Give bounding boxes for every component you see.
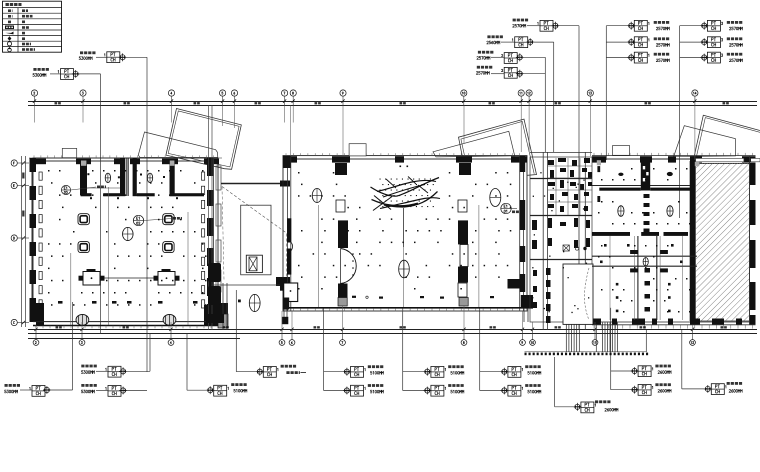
- dimension texts top: [55, 102, 729, 104]
- center oval diffuser left block: [123, 227, 134, 240]
- right block bottom wall: [592, 319, 756, 329]
- leader vertical G8: [610, 308, 612, 390]
- leader A3: [606, 54, 635, 62]
- oval diffuser right room 2: [667, 206, 673, 217]
- callout B1: [707, 20, 742, 31]
- leader A2: [606, 38, 635, 46]
- middle block cove west: [336, 200, 356, 306]
- leader vertical group A: [605, 26, 607, 160]
- canopy right thin quad: [674, 126, 736, 157]
- leader G6a: [403, 368, 431, 376]
- elevator shaft: [241, 205, 271, 275]
- right block roof stub: [613, 146, 630, 156]
- callout G3: [214, 383, 247, 396]
- leader B3: [680, 54, 709, 62]
- downlight dots middle block: [298, 172, 511, 290]
- callout G9: [581, 400, 611, 412]
- left block top wall: [29, 155, 222, 164]
- leader T1: [527, 22, 579, 152]
- leader G2b: [96, 387, 147, 395]
- callout G2b: [81, 384, 121, 396]
- callout T3: [477, 51, 517, 64]
- section marker 1: [61, 185, 106, 194]
- corridor stair blacks: [208, 263, 221, 305]
- callout U1 gypsum 5300: [79, 51, 120, 62]
- left block cove lights west: [39, 172, 42, 308]
- leader T3: [491, 53, 545, 61]
- canopy middle thin quad: [433, 131, 515, 157]
- canopy middle tilted slab: [459, 119, 537, 175]
- oval diffuser mid-left: [312, 189, 322, 203]
- left dimension line: [11, 156, 29, 327]
- corridor bottom walls: [206, 277, 290, 323]
- equipment box right: [154, 269, 180, 285]
- leader vertical G5: [323, 308, 325, 391]
- left block cove lights east: [202, 172, 205, 308]
- leader T2: [501, 38, 554, 152]
- callout T2: [487, 35, 528, 47]
- bottom dimension line: [28, 330, 757, 339]
- canopy right tilted slab: [694, 115, 760, 159]
- section marker mid: [501, 203, 519, 213]
- middle block roof stub: [349, 144, 366, 156]
- leader G8a: [611, 367, 639, 375]
- middle block top wall: [283, 153, 527, 175]
- callout B2: [707, 37, 742, 48]
- leader vertical group B: [679, 26, 681, 218]
- leader G4: [236, 290, 263, 376]
- leader U1: [96, 53, 147, 372]
- left block bottom wall: [33, 301, 228, 328]
- equipment box left: [79, 269, 105, 285]
- left block right wall: [207, 158, 228, 322]
- oval diffuser corridor: [643, 258, 648, 266]
- left block top partitions: [80, 158, 204, 199]
- right block right wall: [750, 156, 756, 325]
- callout G1: [5, 384, 46, 396]
- left block left wall: [30, 158, 37, 322]
- coffer light 1: [78, 214, 89, 225]
- louver corridor walls: [530, 152, 592, 330]
- canopy left tilted slab: [166, 109, 241, 170]
- middle block left wall: [280, 156, 293, 311]
- leader U2: [50, 70, 101, 334]
- leader G9: [555, 357, 582, 411]
- callout G2a: [81, 365, 121, 377]
- leader G5b: [324, 387, 351, 395]
- coffer light 2: [163, 214, 174, 225]
- callout G8b: [638, 383, 671, 395]
- downlight dots left block: [48, 170, 207, 306]
- top dimension line: [28, 102, 757, 106]
- leader G7a: [480, 368, 508, 376]
- leader G1: [20, 302, 73, 394]
- leader B2: [680, 38, 709, 46]
- tree branch ceiling feature: [371, 177, 441, 248]
- callout G5a: [351, 365, 384, 377]
- service core rooms: [530, 157, 593, 324]
- callout G4: [263, 365, 296, 378]
- callout T4: [476, 66, 517, 78]
- leader vertical G6: [402, 308, 404, 391]
- left block white roof stub: [62, 148, 76, 157]
- corridor walls: [209, 106, 291, 331]
- leader G2a: [96, 334, 150, 376]
- hatched area: [667, 158, 760, 321]
- callout G5b: [351, 384, 384, 396]
- canopy left thin quad: [138, 132, 218, 158]
- leader A1: [606, 22, 635, 30]
- leader G6b: [403, 387, 431, 395]
- section marker 2: [133, 215, 182, 225]
- right block interior walls: [592, 159, 697, 320]
- leader G7b: [480, 387, 508, 395]
- callout G8a: [638, 365, 671, 377]
- oval diffuser mid-right: [490, 189, 501, 207]
- downlight dots right block: [598, 168, 691, 313]
- callout T1: [513, 19, 553, 32]
- grid bubbles bottom: [33, 328, 695, 346]
- center oval diffuser middle block: [399, 260, 410, 278]
- middle block right wall: [508, 156, 526, 311]
- left block outline: [33, 158, 218, 322]
- right block top wall: [592, 153, 756, 163]
- callout G6a: [431, 365, 464, 377]
- leader G5a: [324, 368, 351, 376]
- middle block interior verticals: [319, 205, 479, 307]
- callout G7a: [508, 365, 541, 377]
- dimension texts bottom: [56, 326, 727, 328]
- middle block cove east: [458, 200, 468, 306]
- callout A1: [634, 20, 669, 31]
- oval diffuser right room 1: [618, 206, 624, 217]
- callout A2: [634, 37, 669, 48]
- leader T4: [491, 57, 545, 152]
- dotted strip: [525, 352, 649, 355]
- callout A3: [634, 52, 669, 63]
- grid bubbles top: [31, 90, 698, 106]
- leader vertical G7: [479, 308, 481, 391]
- middle block bottom wall: [282, 283, 533, 324]
- coffer light 3: [78, 242, 89, 253]
- callout G10: [711, 382, 742, 395]
- leader G3: [187, 334, 214, 395]
- strip verticals: [596, 322, 646, 352]
- connector line: [105, 277, 154, 279]
- callout G7b: [508, 384, 541, 396]
- small equipment squares right block: [600, 244, 683, 312]
- callout B3: [707, 52, 742, 63]
- coffer light 4: [163, 242, 174, 253]
- leader B1: [680, 22, 709, 30]
- callout U2 gypsum 5300: [33, 68, 74, 79]
- legend table: [3, 1, 62, 52]
- leader G8b: [611, 386, 639, 394]
- callout G6b: [431, 384, 464, 396]
- middle block outline: [283, 156, 527, 311]
- louver comb lines: [566, 323, 617, 353]
- left block interior verticals: [71, 187, 188, 325]
- long grid verticals: [35, 106, 695, 332]
- leader G10: [682, 330, 712, 393]
